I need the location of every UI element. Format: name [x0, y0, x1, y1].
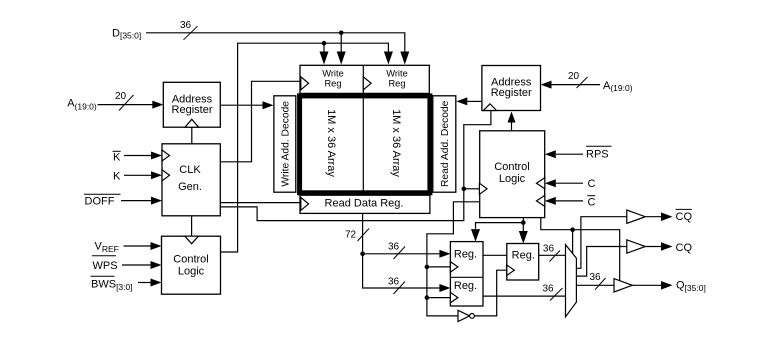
- reg stack box: [450, 242, 483, 306]
- svg-text:1M x 36 Array: 1M x 36 Array: [390, 109, 402, 177]
- arrow BWS-bar: [151, 279, 162, 287]
- label CQ-bar: [676, 208, 692, 210]
- arrow C-bar: [545, 197, 556, 205]
- svg-text:Control: Control: [494, 161, 529, 173]
- mux: [566, 245, 577, 317]
- bus slash 20 left: [119, 95, 134, 111]
- address register left: [163, 82, 220, 127]
- svg-text:K: K: [113, 152, 121, 164]
- svg-text:CQ: CQ: [676, 211, 693, 223]
- clock pin write reg right: [363, 77, 371, 90]
- wire load to mid reg: [522, 223, 524, 232]
- svg-text:36: 36: [388, 242, 400, 253]
- wire C-bar: [556, 200, 583, 202]
- label WPS-bar: [92, 255, 116, 257]
- wire clk gen to write reg clock: [220, 81, 300, 162]
- svg-text:1M x 36 Array: 1M x 36 Array: [325, 109, 337, 177]
- read add decode box: [433, 96, 456, 192]
- wire inverter to mid reg clock: [474, 270, 506, 316]
- node 72 split: [360, 252, 365, 257]
- wire CQ-bar out: [645, 216, 661, 218]
- write reg divider: [362, 65, 364, 93]
- wire DOFF-bar: [121, 200, 151, 202]
- svg-text:Write: Write: [386, 69, 408, 79]
- bus slash D: [184, 26, 198, 40]
- clock triangle control logic left: [185, 236, 199, 244]
- buffer CQ: [627, 240, 646, 253]
- write reg band: [300, 65, 429, 93]
- svg-text:C: C: [588, 197, 596, 209]
- wire clk gen to control logic left: [191, 216, 193, 236]
- wire mux select: [572, 230, 574, 254]
- wire lower branch down: [323, 43, 325, 52]
- slash 36 upper read: [394, 247, 406, 260]
- clock pin C: [537, 178, 545, 189]
- svg-text:20: 20: [115, 91, 127, 102]
- arrow K: [151, 171, 162, 179]
- svg-text:Write: Write: [322, 69, 344, 79]
- wire clk gen to read data reg clock: [220, 202, 300, 204]
- wire 72 bus: [363, 213, 440, 288]
- arrow RPS-bar: [545, 150, 556, 158]
- wire 36 branch upper: [363, 253, 440, 255]
- svg-text:CLK: CLK: [179, 164, 201, 176]
- mid reg box: [507, 244, 539, 281]
- wire WPS-bar: [122, 264, 151, 266]
- wire address register left to write add decode: [220, 104, 262, 106]
- bus slash 20 right: [577, 77, 588, 88]
- svg-text:72: 72: [345, 230, 357, 241]
- wire reg to mid reg: [483, 254, 507, 256]
- write add decode box: [274, 96, 296, 192]
- wire D bus to write regs: [146, 33, 405, 52]
- label C-bar: [587, 195, 595, 197]
- buffer Q: [614, 279, 632, 292]
- wire K: [124, 174, 151, 176]
- wire clk gen to address register: [191, 127, 193, 144]
- svg-text:Control: Control: [173, 253, 208, 265]
- control logic left box: [162, 236, 221, 294]
- slash 36 lower read: [394, 282, 406, 295]
- wire A input right: [552, 84, 601, 86]
- node reg clock upper: [425, 265, 430, 270]
- slash 72: [358, 229, 370, 242]
- wire clk gen long clock line to right side: [220, 111, 491, 221]
- wire address register right to read add decode: [467, 100, 482, 102]
- svg-text:36: 36: [590, 272, 602, 283]
- wire BWS-bar: [138, 282, 151, 284]
- clock triangle address register left: [185, 119, 199, 127]
- wire control logic right to reg clocks: [427, 202, 480, 316]
- arrow into reg stack lower: [439, 284, 450, 292]
- svg-text:K: K: [113, 171, 121, 183]
- svg-text:20: 20: [568, 71, 580, 82]
- wire control to write regs upper: [221, 43, 389, 252]
- svg-text:Reg.: Reg.: [512, 249, 535, 261]
- node output path: [570, 227, 575, 232]
- svg-text:36: 36: [180, 20, 192, 31]
- node D branch: [339, 31, 344, 36]
- svg-text:Reg.: Reg.: [454, 280, 477, 292]
- arrow VREF: [151, 242, 162, 250]
- clock pin C-bar: [537, 195, 545, 206]
- svg-text:36: 36: [543, 244, 555, 255]
- wire clock branch upper: [427, 266, 451, 268]
- svg-text:RPS: RPS: [586, 149, 609, 161]
- label BWS-bar[3:0]: [91, 275, 115, 277]
- wire control logic to output enable: [541, 218, 620, 281]
- arrow into right Write Reg from D bus: [400, 52, 409, 65]
- wire VREF: [124, 245, 151, 247]
- svg-text:WPS: WPS: [93, 260, 118, 272]
- svg-text:Logic: Logic: [499, 173, 526, 185]
- svg-text:Reg: Reg: [324, 78, 341, 88]
- slash 36 output: [595, 278, 606, 290]
- svg-text:Register: Register: [172, 104, 213, 116]
- arrow into address register right: [541, 81, 552, 89]
- clock triangle address register right: [483, 104, 496, 111]
- arrow K-bar: [151, 152, 162, 160]
- svg-text:Read Data Reg.: Read Data Reg.: [325, 198, 404, 210]
- svg-text:Gen.: Gen.: [178, 181, 202, 193]
- node clock to control logic right: [462, 187, 467, 192]
- svg-text:Write Add. Decode: Write Add. Decode: [280, 101, 291, 187]
- label RPS-bar: [586, 145, 612, 147]
- wire C: [556, 182, 583, 184]
- clk gen box: [162, 144, 220, 216]
- slash 36 lower mux: [550, 288, 563, 301]
- svg-text:36: 36: [388, 277, 400, 288]
- wire reg lower to mux: [483, 295, 565, 297]
- clock pin K: [162, 170, 170, 181]
- svg-text:CQ: CQ: [676, 242, 693, 254]
- memory array thick box: [300, 96, 430, 193]
- svg-text:DOFF: DOFF: [85, 196, 115, 208]
- wire mux to cq-bar buffer: [576, 217, 626, 269]
- clock pin write reg left: [301, 77, 309, 90]
- arrow into Address Register left: [152, 101, 163, 109]
- wire A input left: [98, 104, 153, 106]
- arrow into mid reg top: [519, 231, 528, 244]
- wire K-bar: [124, 155, 151, 157]
- read data reg box: [300, 195, 430, 213]
- clock pin K-bar: [162, 150, 170, 161]
- svg-text:Reg.: Reg.: [454, 248, 477, 260]
- arrow Q: [661, 281, 673, 290]
- inverter: [458, 310, 470, 321]
- node lower line branch: [322, 41, 327, 46]
- arrow CQ: [661, 242, 673, 251]
- label K-bar: [113, 150, 121, 152]
- buffer CQ-bar: [627, 210, 646, 223]
- clock pin reg lower: [450, 292, 458, 302]
- arrow control logic right to address register: [511, 123, 513, 132]
- svg-text:36: 36: [543, 284, 555, 295]
- svg-text:Read Add. Decode: Read Add. Decode: [440, 100, 451, 187]
- array divider: [362, 96, 364, 193]
- clock pin reg upper: [450, 262, 458, 272]
- label DOFF-bar: [84, 193, 121, 195]
- arrow into left Write Reg from D bus: [337, 52, 346, 65]
- arrow into left Write Reg lower line: [320, 52, 329, 65]
- arrow into read add decode: [456, 97, 467, 105]
- clock pin control logic right: [479, 183, 487, 194]
- wire control logic right to regs: [476, 218, 524, 229]
- clock pin read data reg: [301, 197, 309, 210]
- wire Q out: [632, 284, 661, 286]
- arrow C: [545, 179, 556, 187]
- arrow DOFF-bar: [151, 197, 162, 205]
- wire mux to cq buffer: [576, 247, 626, 277]
- wire mid reg to mux: [539, 254, 566, 256]
- wire CQ out: [645, 246, 661, 248]
- arrow into reg stack top: [471, 229, 480, 242]
- reg stack divider: [450, 276, 483, 278]
- svg-text:C: C: [588, 178, 596, 190]
- svg-text:Register: Register: [491, 87, 532, 99]
- node regs load: [521, 220, 526, 225]
- wire clock branch to control logic right: [464, 188, 480, 190]
- svg-text:Reg: Reg: [388, 78, 405, 88]
- arrow CQ-bar: [661, 212, 673, 221]
- arrow into right Write Reg lower line: [384, 52, 393, 65]
- arrow into reg stack upper: [439, 250, 450, 258]
- slash 36 mid: [550, 251, 561, 262]
- wire mux output: [576, 284, 614, 286]
- arrow into write add decode: [263, 101, 274, 109]
- wire clock branch lower: [427, 297, 451, 299]
- arrow WPS-bar: [151, 261, 162, 269]
- svg-text:Logic: Logic: [178, 265, 205, 277]
- control logic right box: [480, 131, 545, 218]
- wire D branch down: [340, 33, 342, 52]
- address register right box: [482, 66, 541, 111]
- node reg clock lower: [425, 295, 430, 300]
- wire RPS-bar: [556, 153, 583, 155]
- clock pin mid reg: [507, 265, 515, 275]
